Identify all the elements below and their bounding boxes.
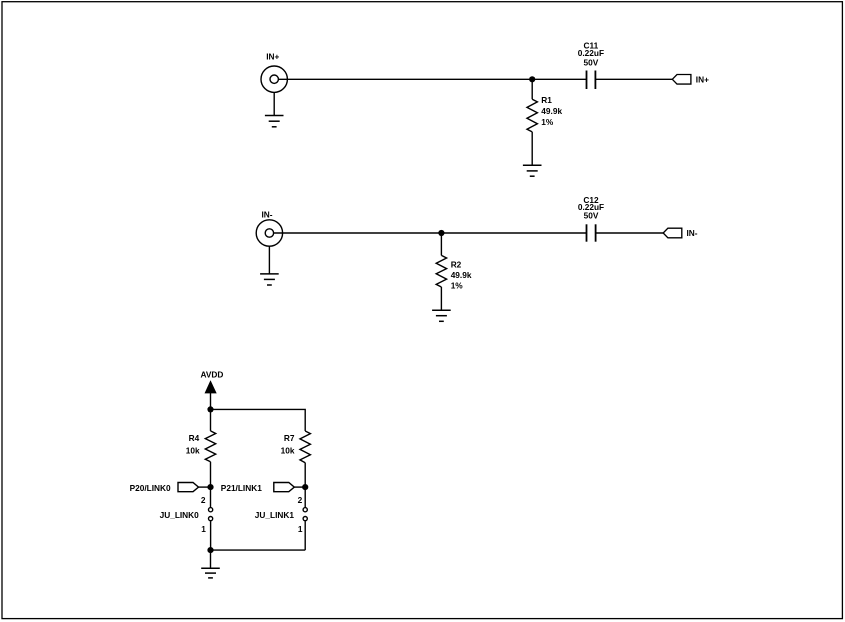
label R7 values (281, 433, 295, 456)
label R2 values (451, 260, 472, 291)
wire junction to R1 (531, 79, 533, 99)
resistor R7 (300, 431, 310, 463)
ground (R1) (523, 165, 542, 176)
svg-text:1%: 1% (541, 117, 554, 127)
jumper JU_LINK1 pin1 (303, 517, 307, 521)
wire ground rail (211, 549, 306, 551)
port flag P21/LINK1 (274, 483, 295, 492)
svg-text:R2: R2 (451, 260, 462, 270)
wire P21 flag to node (294, 486, 305, 488)
node junction ground rail (207, 547, 213, 553)
label C11 values (578, 41, 604, 68)
svg-text:10k: 10k (186, 445, 200, 455)
label R4 values (186, 433, 200, 456)
ground (R2) (432, 310, 451, 321)
node junction LINK0 (207, 484, 213, 490)
port flag P20/LINK0 (178, 483, 199, 492)
wire JU_LINK1 pin1 to ground rail (304, 521, 306, 550)
jumper JU_LINK1 pin2 (303, 508, 307, 512)
ground (BNC2 shield) (260, 274, 279, 285)
resistor R4 (205, 431, 215, 462)
svg-text:1: 1 (298, 524, 303, 534)
svg-text:R1: R1 (541, 95, 552, 105)
wire R7 to node (304, 463, 306, 487)
capacitor C11 (587, 71, 596, 90)
svg-text:2: 2 (201, 495, 206, 505)
connector J_IN- (BNC) (256, 220, 282, 246)
node junction row1 (529, 76, 535, 82)
wire node to ground (210, 550, 212, 568)
node junction LINK1 (302, 484, 308, 490)
node junction row2 (438, 230, 444, 236)
svg-text:1: 1 (201, 524, 206, 534)
wire BNC2 shield stem (268, 246, 270, 274)
svg-text:0.22uF: 0.22uF (578, 48, 604, 58)
svg-text:1%: 1% (451, 280, 464, 290)
svg-text:49.9k: 49.9k (451, 270, 472, 280)
wire R1 to ground (531, 132, 533, 165)
wire P20 flag to node (199, 486, 211, 488)
resistor R2 (436, 255, 446, 287)
wire R2 to ground (440, 287, 442, 310)
connector J_IN+ (BNC) (261, 66, 287, 92)
svg-text:50V: 50V (584, 210, 599, 220)
svg-text:IN-: IN- (687, 228, 698, 238)
svg-text:IN+: IN+ (696, 75, 709, 85)
wire R4 to node (210, 462, 212, 487)
wire AVDD to R4 (210, 409, 212, 431)
wire BNC2 to C12 (274, 232, 587, 234)
wire junction to R2 (440, 233, 442, 255)
svg-text:IN-: IN- (262, 209, 273, 219)
label C12 values (578, 195, 604, 221)
power AVDD (200, 370, 223, 410)
ground (BNC1 shield) (265, 116, 284, 127)
jumper JU_LINK0 pin2 (209, 508, 213, 512)
svg-text:2: 2 (298, 495, 303, 505)
svg-text:IN+: IN+ (266, 51, 279, 61)
wire BNC1 shield stem (273, 92, 275, 115)
jumper JU_LINK0 pin1 (209, 517, 213, 521)
wire C11 to terminal (595, 78, 672, 80)
wire C12 to terminal (596, 232, 664, 234)
svg-text:P21/LINK1: P21/LINK1 (221, 483, 262, 493)
wire node to JU_LINK1 pin2 (304, 487, 306, 507)
svg-text:P20/LINK0: P20/LINK0 (130, 483, 171, 493)
svg-text:10k: 10k (281, 445, 295, 455)
resistor R1 (527, 99, 537, 132)
ground (LINK rail) (201, 568, 220, 578)
svg-text:JU_LINK1: JU_LINK1 (255, 510, 295, 520)
svg-text:AVDD: AVDD (200, 370, 223, 380)
capacitor C12 (587, 224, 596, 241)
wire node to JU_LINK0 pin2 (210, 487, 212, 507)
label R1 values (541, 95, 562, 127)
svg-text:49.9k: 49.9k (541, 106, 562, 116)
terminal IN- (663, 228, 682, 238)
svg-text:R7: R7 (284, 433, 295, 443)
wire BNC1 to C11 (278, 78, 586, 80)
node junction AVDD (207, 406, 213, 412)
terminal IN+ (672, 75, 691, 85)
wire JU_LINK0 pin1 to ground rail (210, 521, 212, 550)
svg-text:R4: R4 (189, 433, 200, 443)
svg-text:50V: 50V (584, 58, 599, 68)
svg-text:JU_LINK0: JU_LINK0 (160, 510, 200, 520)
wire AVDD rail to right branch (211, 409, 306, 431)
